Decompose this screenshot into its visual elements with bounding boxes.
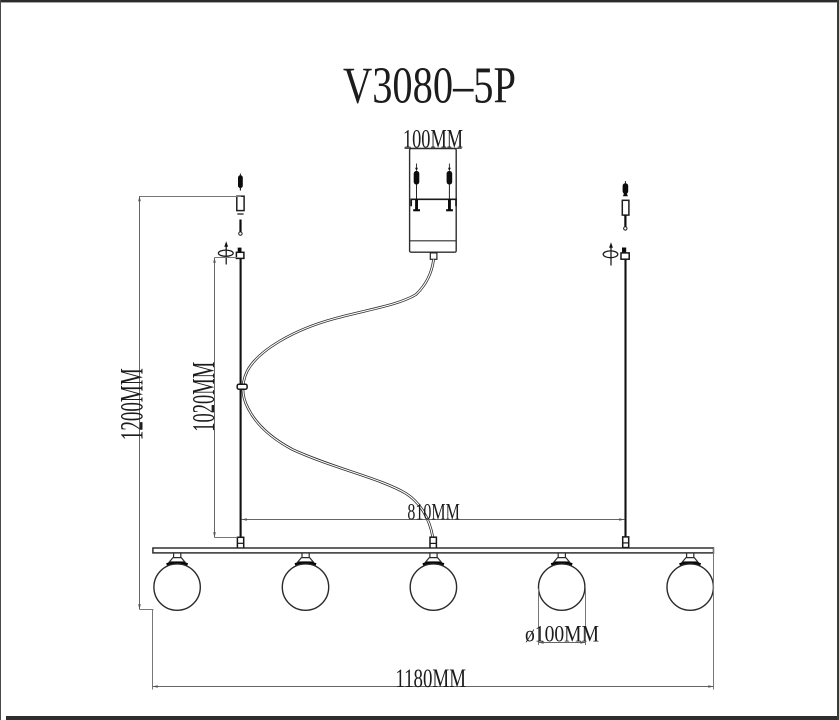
fixture bar (153, 548, 714, 553)
dimension 810MM (242, 499, 625, 525)
power cord (S-curve) (243, 260, 434, 538)
socket 4 (551, 553, 572, 565)
cord clip on left rod (237, 384, 247, 389)
page border frame (0, 0, 839, 2)
svg-text:1180MM: 1180MM (395, 664, 466, 693)
dimension 1200MM (114, 196, 241, 610)
globe 5 (667, 564, 713, 610)
suspension rod left (240, 258, 242, 537)
globe 3 (410, 564, 456, 610)
socket 1 (167, 553, 188, 565)
ceiling screw right (623, 181, 629, 196)
title V3080-5P (343, 58, 516, 115)
canopy body U1 (410, 149, 457, 253)
cord connector at bar (430, 537, 436, 548)
rotation indicator right (603, 242, 618, 265)
hanger screw left (239, 220, 242, 236)
svg-text:810MM: 810MM (407, 499, 459, 525)
globe 1 (154, 564, 200, 610)
dimension diameter 100MM (525, 589, 599, 647)
socket 3 (423, 553, 444, 565)
hanger screw right (624, 215, 627, 230)
canopy screw left (413, 164, 420, 212)
svg-text:1200MM: 1200MM (114, 368, 150, 440)
dimension 1020MM (185, 258, 238, 538)
rotation indicator left (218, 241, 233, 264)
svg-text:ø100MM: ø100MM (525, 621, 599, 646)
ceiling screw left (238, 174, 243, 191)
ceiling cup right (622, 200, 629, 215)
ceiling cup left (237, 196, 244, 214)
turnbuckle right (621, 248, 629, 260)
suspension rod right (624, 259, 626, 537)
canopy mounting bracket (411, 199, 456, 206)
canopy cord grip (430, 253, 437, 259)
socket 5 (680, 553, 701, 565)
dimension 100MM canopy width (403, 125, 463, 154)
turnbuckle left (236, 248, 244, 259)
canopy screw right (446, 164, 453, 212)
svg-text:1020MM: 1020MM (185, 362, 221, 432)
globe 2 (282, 564, 328, 610)
svg-text:V3080–5P: V3080–5P (343, 58, 516, 115)
socket 2 (295, 553, 316, 565)
rod connector right (623, 537, 629, 548)
rod connector left (237, 537, 243, 548)
globe 4 (539, 564, 585, 610)
dimension 1180MM (153, 548, 714, 693)
